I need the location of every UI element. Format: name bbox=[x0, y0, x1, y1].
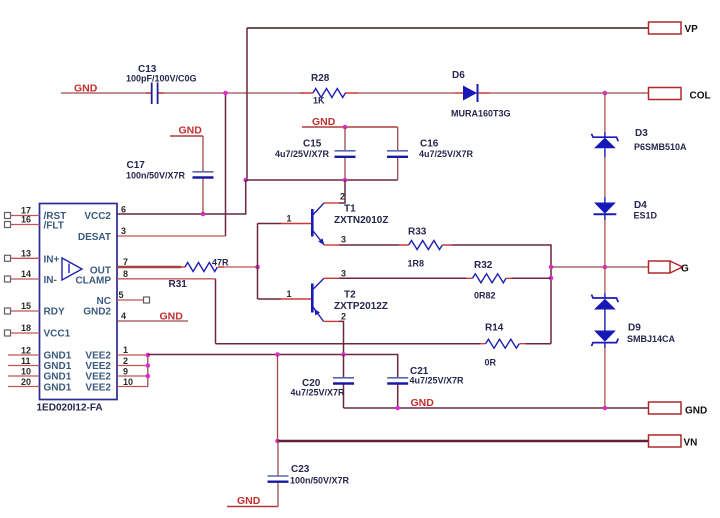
junction GND line to C15 bbox=[343, 125, 348, 130]
wire VCC2 riser bbox=[117, 180, 246, 214]
svg-text:GND1: GND1 bbox=[44, 372, 72, 383]
svg-text:3: 3 bbox=[341, 268, 346, 278]
op-amp buffer symbol inside U1 bbox=[62, 258, 82, 280]
svg-text:P6SMB510A: P6SMB510A bbox=[634, 142, 687, 152]
wire NC pin5 bbox=[117, 299, 144, 301]
svg-text:GND1: GND1 bbox=[44, 361, 72, 372]
wire VN rail bbox=[278, 440, 649, 442]
wire GND rail y=408 bbox=[344, 407, 649, 409]
svg-text:G: G bbox=[681, 264, 689, 275]
svg-text:15: 15 bbox=[21, 301, 31, 311]
svg-text:47R: 47R bbox=[212, 258, 229, 268]
svg-text:VN: VN bbox=[684, 438, 698, 449]
pad pin16 bbox=[5, 222, 11, 228]
junction DESAT to C13 net bbox=[223, 91, 228, 96]
svg-text:R32: R32 bbox=[474, 260, 493, 271]
wire pin11 GND1 bbox=[8, 365, 40, 367]
capacitor C17 bbox=[126, 136, 214, 214]
junction OUT node bbox=[255, 265, 260, 270]
diode D3 P6SMB510A zener bbox=[592, 128, 688, 157]
svg-text:NC: NC bbox=[97, 296, 111, 307]
pad pin17 bbox=[5, 213, 11, 219]
svg-text:CLAMP: CLAMP bbox=[75, 276, 111, 287]
wire DESAT vertical bbox=[225, 93, 227, 236]
wire GND2 pin4 bbox=[117, 320, 188, 322]
junction R32 at gate vertical bbox=[549, 276, 554, 281]
power GND symbol above C17 bbox=[170, 125, 203, 137]
wire pin14 IN- bbox=[11, 278, 40, 280]
svg-text:R31: R31 bbox=[169, 279, 188, 290]
svg-text:MURA160T3G: MURA160T3G bbox=[451, 109, 511, 119]
wire OUT pin7 thick bbox=[117, 266, 181, 269]
wire R14 to gate vertical bbox=[526, 343, 551, 345]
pad pin18 bbox=[5, 330, 11, 336]
wire G line to D9 bbox=[604, 267, 606, 293]
wire CLAMP vertical bbox=[215, 279, 217, 344]
wire T2 base bbox=[258, 298, 282, 300]
svg-text:GND: GND bbox=[312, 116, 336, 128]
svg-text:C17: C17 bbox=[127, 160, 146, 171]
svg-text:0R: 0R bbox=[485, 358, 497, 368]
svg-text:C23: C23 bbox=[291, 464, 310, 475]
wire VEE2 pin1 bbox=[117, 354, 148, 356]
transistor T2 ZXTP2012Z bbox=[312, 268, 388, 321]
svg-text:D9: D9 bbox=[628, 323, 641, 334]
svg-text:13: 13 bbox=[21, 248, 31, 258]
wire D3 top from COL node bbox=[604, 93, 606, 132]
svg-text:T1: T1 bbox=[344, 204, 356, 215]
wire R31 to OUT node bbox=[224, 266, 258, 268]
wire R14 net y=343.7 bbox=[216, 343, 481, 345]
resistor R33 1R8 bbox=[399, 227, 452, 269]
svg-text:SMBJ14CA: SMBJ14CA bbox=[627, 334, 676, 344]
svg-text:C15: C15 bbox=[303, 139, 322, 150]
svg-text:VEE2: VEE2 bbox=[85, 361, 111, 372]
wire G line y=267 bbox=[551, 266, 649, 268]
power GND symbol above C15/C16 bbox=[302, 116, 398, 128]
svg-text:VEE2: VEE2 bbox=[85, 351, 111, 362]
svg-text:VCC1: VCC1 bbox=[44, 329, 71, 340]
svg-text:2: 2 bbox=[340, 192, 345, 202]
svg-text:4u7/25V/X7R: 4u7/25V/X7R bbox=[410, 376, 465, 386]
wire pin12 GND1 bbox=[8, 354, 40, 356]
connector COL bbox=[649, 88, 711, 102]
resistor R28 bbox=[300, 73, 358, 106]
wire VP vertical bbox=[246, 28, 248, 180]
power GND symbol bottom bbox=[227, 495, 278, 507]
svg-text:GND: GND bbox=[74, 83, 98, 95]
svg-text:2: 2 bbox=[341, 312, 346, 322]
wire T1 emitter to R33 bbox=[324, 244, 339, 246]
svg-text:10: 10 bbox=[21, 367, 31, 377]
svg-text:100n/50V/X7R: 100n/50V/X7R bbox=[290, 476, 350, 486]
junction VEE2 rail to VN drop bbox=[275, 352, 280, 357]
svg-text:100n/50V/X7R: 100n/50V/X7R bbox=[126, 171, 186, 181]
wire T1 collector riser bbox=[339, 180, 345, 203]
svg-text:18: 18 bbox=[21, 323, 31, 333]
junction VN node bbox=[275, 439, 280, 444]
svg-text:ES1D: ES1D bbox=[634, 211, 658, 221]
svg-text:4u7/25V/X7R: 4u7/25V/X7R bbox=[291, 388, 346, 398]
svg-text:1K: 1K bbox=[313, 96, 325, 106]
svg-text:DESAT: DESAT bbox=[78, 232, 111, 243]
wire CLAMP pin8 bbox=[117, 278, 216, 280]
junction VP vertical to VCC2 rail bbox=[243, 178, 248, 183]
junction C15 bottom on VCC2 rail bbox=[343, 178, 348, 183]
wire T2 emitter drop bbox=[324, 320, 340, 322]
wire pin10 GND1 bbox=[8, 375, 40, 377]
wire D3 to D4 bbox=[604, 157, 606, 197]
junction VEE2 pin2 bbox=[146, 363, 151, 368]
svg-text:3: 3 bbox=[121, 226, 126, 236]
wire OUT node vertical to bases bbox=[257, 224, 259, 300]
capacitor C20 bbox=[291, 355, 355, 409]
connector VN bbox=[649, 435, 698, 449]
svg-text:GND: GND bbox=[160, 311, 184, 323]
svg-text:11: 11 bbox=[21, 356, 31, 366]
wire net DESAT blanking y=93 (GND to C13) bbox=[61, 92, 151, 94]
capacitor C23 bbox=[268, 441, 350, 507]
pad pin13 bbox=[5, 255, 11, 261]
junction C17 to VCC2 bbox=[201, 212, 206, 217]
svg-text:ZXTP2012Z: ZXTP2012Z bbox=[334, 301, 388, 312]
pad NC bbox=[144, 297, 150, 303]
wire pin17 /RST bbox=[11, 215, 40, 217]
svg-text:IN+: IN+ bbox=[44, 255, 60, 266]
svg-text:7: 7 bbox=[123, 257, 128, 267]
diode D9 SMBJ14CA TVS bbox=[592, 293, 676, 348]
svg-text:VEE2: VEE2 bbox=[85, 383, 111, 394]
svg-text:8: 8 bbox=[123, 269, 128, 279]
wire pin13 IN+ bbox=[11, 257, 40, 259]
svg-text:GND2: GND2 bbox=[83, 307, 111, 318]
svg-text:20: 20 bbox=[21, 377, 31, 387]
diode D4 ES1D bbox=[594, 197, 658, 221]
svg-text:1: 1 bbox=[123, 345, 128, 355]
svg-text:GND1: GND1 bbox=[44, 351, 72, 362]
capacitor C15 bbox=[275, 127, 356, 180]
svg-text:GND: GND bbox=[237, 495, 261, 507]
svg-text:10: 10 bbox=[123, 377, 133, 387]
svg-text:0R82: 0R82 bbox=[474, 291, 496, 301]
svg-text:GND1: GND1 bbox=[44, 383, 72, 394]
svg-text:5: 5 bbox=[119, 290, 124, 300]
svg-text:1: 1 bbox=[287, 289, 292, 299]
svg-text:12: 12 bbox=[21, 346, 31, 356]
wire R28 to D6 bbox=[358, 92, 455, 94]
svg-text:16: 16 bbox=[21, 215, 31, 225]
wire VP net top bbox=[247, 27, 649, 29]
resistor R31 47R bbox=[169, 258, 230, 291]
wire D4 to G line bbox=[604, 220, 606, 267]
svg-text:4: 4 bbox=[121, 311, 126, 321]
svg-text:T2: T2 bbox=[344, 290, 356, 301]
svg-text:1ED020I12-FA: 1ED020I12-FA bbox=[37, 403, 103, 414]
capacitor C16 bbox=[387, 127, 474, 180]
wire pin20 GND1 bbox=[8, 386, 40, 388]
junction GND rail at D9 bbox=[603, 406, 608, 411]
svg-text:2: 2 bbox=[123, 356, 128, 366]
wire D9 to GND rail bbox=[604, 348, 606, 408]
svg-text:R14: R14 bbox=[485, 323, 504, 334]
svg-text:D6: D6 bbox=[452, 70, 465, 81]
junction COL node bbox=[603, 91, 608, 96]
connector G bbox=[649, 261, 690, 275]
svg-text:4u7/25V/X7R: 4u7/25V/X7R bbox=[275, 149, 330, 159]
wire VEE2 pin2 bbox=[117, 365, 148, 367]
junction VEE2 pin1 bbox=[146, 353, 151, 358]
svg-text:14: 14 bbox=[21, 269, 31, 279]
svg-text:GND: GND bbox=[179, 125, 203, 137]
svg-text:GND: GND bbox=[411, 397, 435, 409]
wire pin16 /FLT bbox=[11, 224, 40, 226]
wire T1 base bbox=[258, 223, 282, 225]
svg-text:100pF/100V/C0G: 100pF/100V/C0G bbox=[126, 74, 197, 84]
svg-text:/FLT: /FLT bbox=[44, 221, 64, 232]
diode D6 MURA160T3G bbox=[451, 70, 511, 119]
wire pin15 RDY bbox=[11, 310, 40, 312]
svg-text:IN-: IN- bbox=[44, 275, 57, 286]
svg-text:4u7/25V/X7R: 4u7/25V/X7R bbox=[419, 149, 474, 159]
svg-text:D4: D4 bbox=[634, 200, 647, 211]
svg-text:D3: D3 bbox=[635, 128, 648, 139]
svg-text:C16: C16 bbox=[420, 139, 439, 150]
svg-text:VEE2: VEE2 bbox=[85, 372, 111, 383]
svg-text:9: 9 bbox=[123, 367, 128, 377]
junction gate node at G line bbox=[549, 265, 554, 270]
junction C21 on GND rail bbox=[395, 406, 400, 411]
wire VEE2 bus vertical bbox=[147, 355, 149, 387]
transistor T1 ZXTN2010Z bbox=[312, 192, 388, 245]
resistor R32 0R82 bbox=[466, 260, 512, 301]
capacitor C13 bbox=[126, 64, 305, 104]
svg-text:RDY: RDY bbox=[44, 307, 65, 318]
wire VCC2 rail y=180 bbox=[246, 179, 398, 181]
connector GND bbox=[649, 402, 708, 417]
svg-text:COL: COL bbox=[690, 91, 711, 102]
wire VN drop from rail bbox=[277, 355, 279, 442]
svg-text:1: 1 bbox=[287, 214, 292, 224]
svg-text:ZXTN2010Z: ZXTN2010Z bbox=[334, 215, 388, 226]
svg-text:1R8: 1R8 bbox=[408, 259, 425, 269]
connector VP bbox=[649, 22, 699, 35]
svg-text:R28: R28 bbox=[311, 73, 330, 84]
wire pin18 VCC1 bbox=[11, 332, 40, 334]
junction T2 emitter on rail bbox=[341, 352, 346, 357]
pad pin15 bbox=[5, 308, 11, 314]
wire VEE2 pin10 bbox=[117, 386, 148, 388]
svg-text:R33: R33 bbox=[408, 227, 427, 238]
svg-text:VCC2: VCC2 bbox=[84, 211, 111, 222]
capacitor C21 bbox=[387, 366, 464, 386]
wire VEE2 rail bbox=[148, 355, 398, 409]
resistor R14 0R bbox=[480, 323, 526, 368]
IC U1 1ED020I12-FA body bbox=[40, 204, 118, 400]
wire D6 to COL bbox=[490, 92, 649, 94]
junction G line at D3/D4 chain bbox=[603, 265, 608, 270]
svg-text:VP: VP bbox=[685, 24, 699, 35]
wire R32 to gate vertical bbox=[512, 277, 551, 279]
wire T2 collector to R32 bbox=[339, 277, 466, 279]
svg-text:3: 3 bbox=[341, 235, 346, 245]
wire DESAT pin3 horizontal bbox=[117, 235, 226, 237]
svg-text:GND: GND bbox=[685, 406, 707, 417]
junction VEE2 pin9 bbox=[146, 374, 151, 379]
svg-text:6: 6 bbox=[121, 205, 126, 215]
wire VEE2 pin9 bbox=[117, 375, 148, 377]
pad pin14 bbox=[5, 276, 11, 282]
wire R33 to gate node bbox=[452, 245, 551, 344]
